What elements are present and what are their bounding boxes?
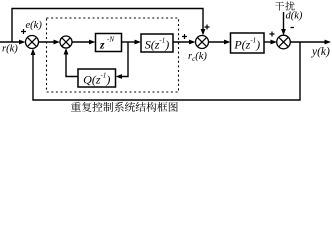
svg-text:e(k): e(k)	[26, 20, 43, 31]
svg-text:y(k): y(k)	[311, 46, 330, 58]
svg-text:Q(z-1): Q(z-1)	[83, 72, 110, 87]
svg-text:S(z-1): S(z-1)	[145, 37, 170, 52]
svg-text:z: z	[99, 40, 105, 52]
svg-text:rc(k): rc(k)	[188, 51, 207, 63]
svg-text:-N: -N	[107, 36, 114, 44]
svg-text:r(k): r(k)	[2, 44, 18, 55]
svg-text:P(z-1): P(z-1)	[233, 37, 260, 52]
svg-text:d(k): d(k)	[286, 11, 303, 22]
